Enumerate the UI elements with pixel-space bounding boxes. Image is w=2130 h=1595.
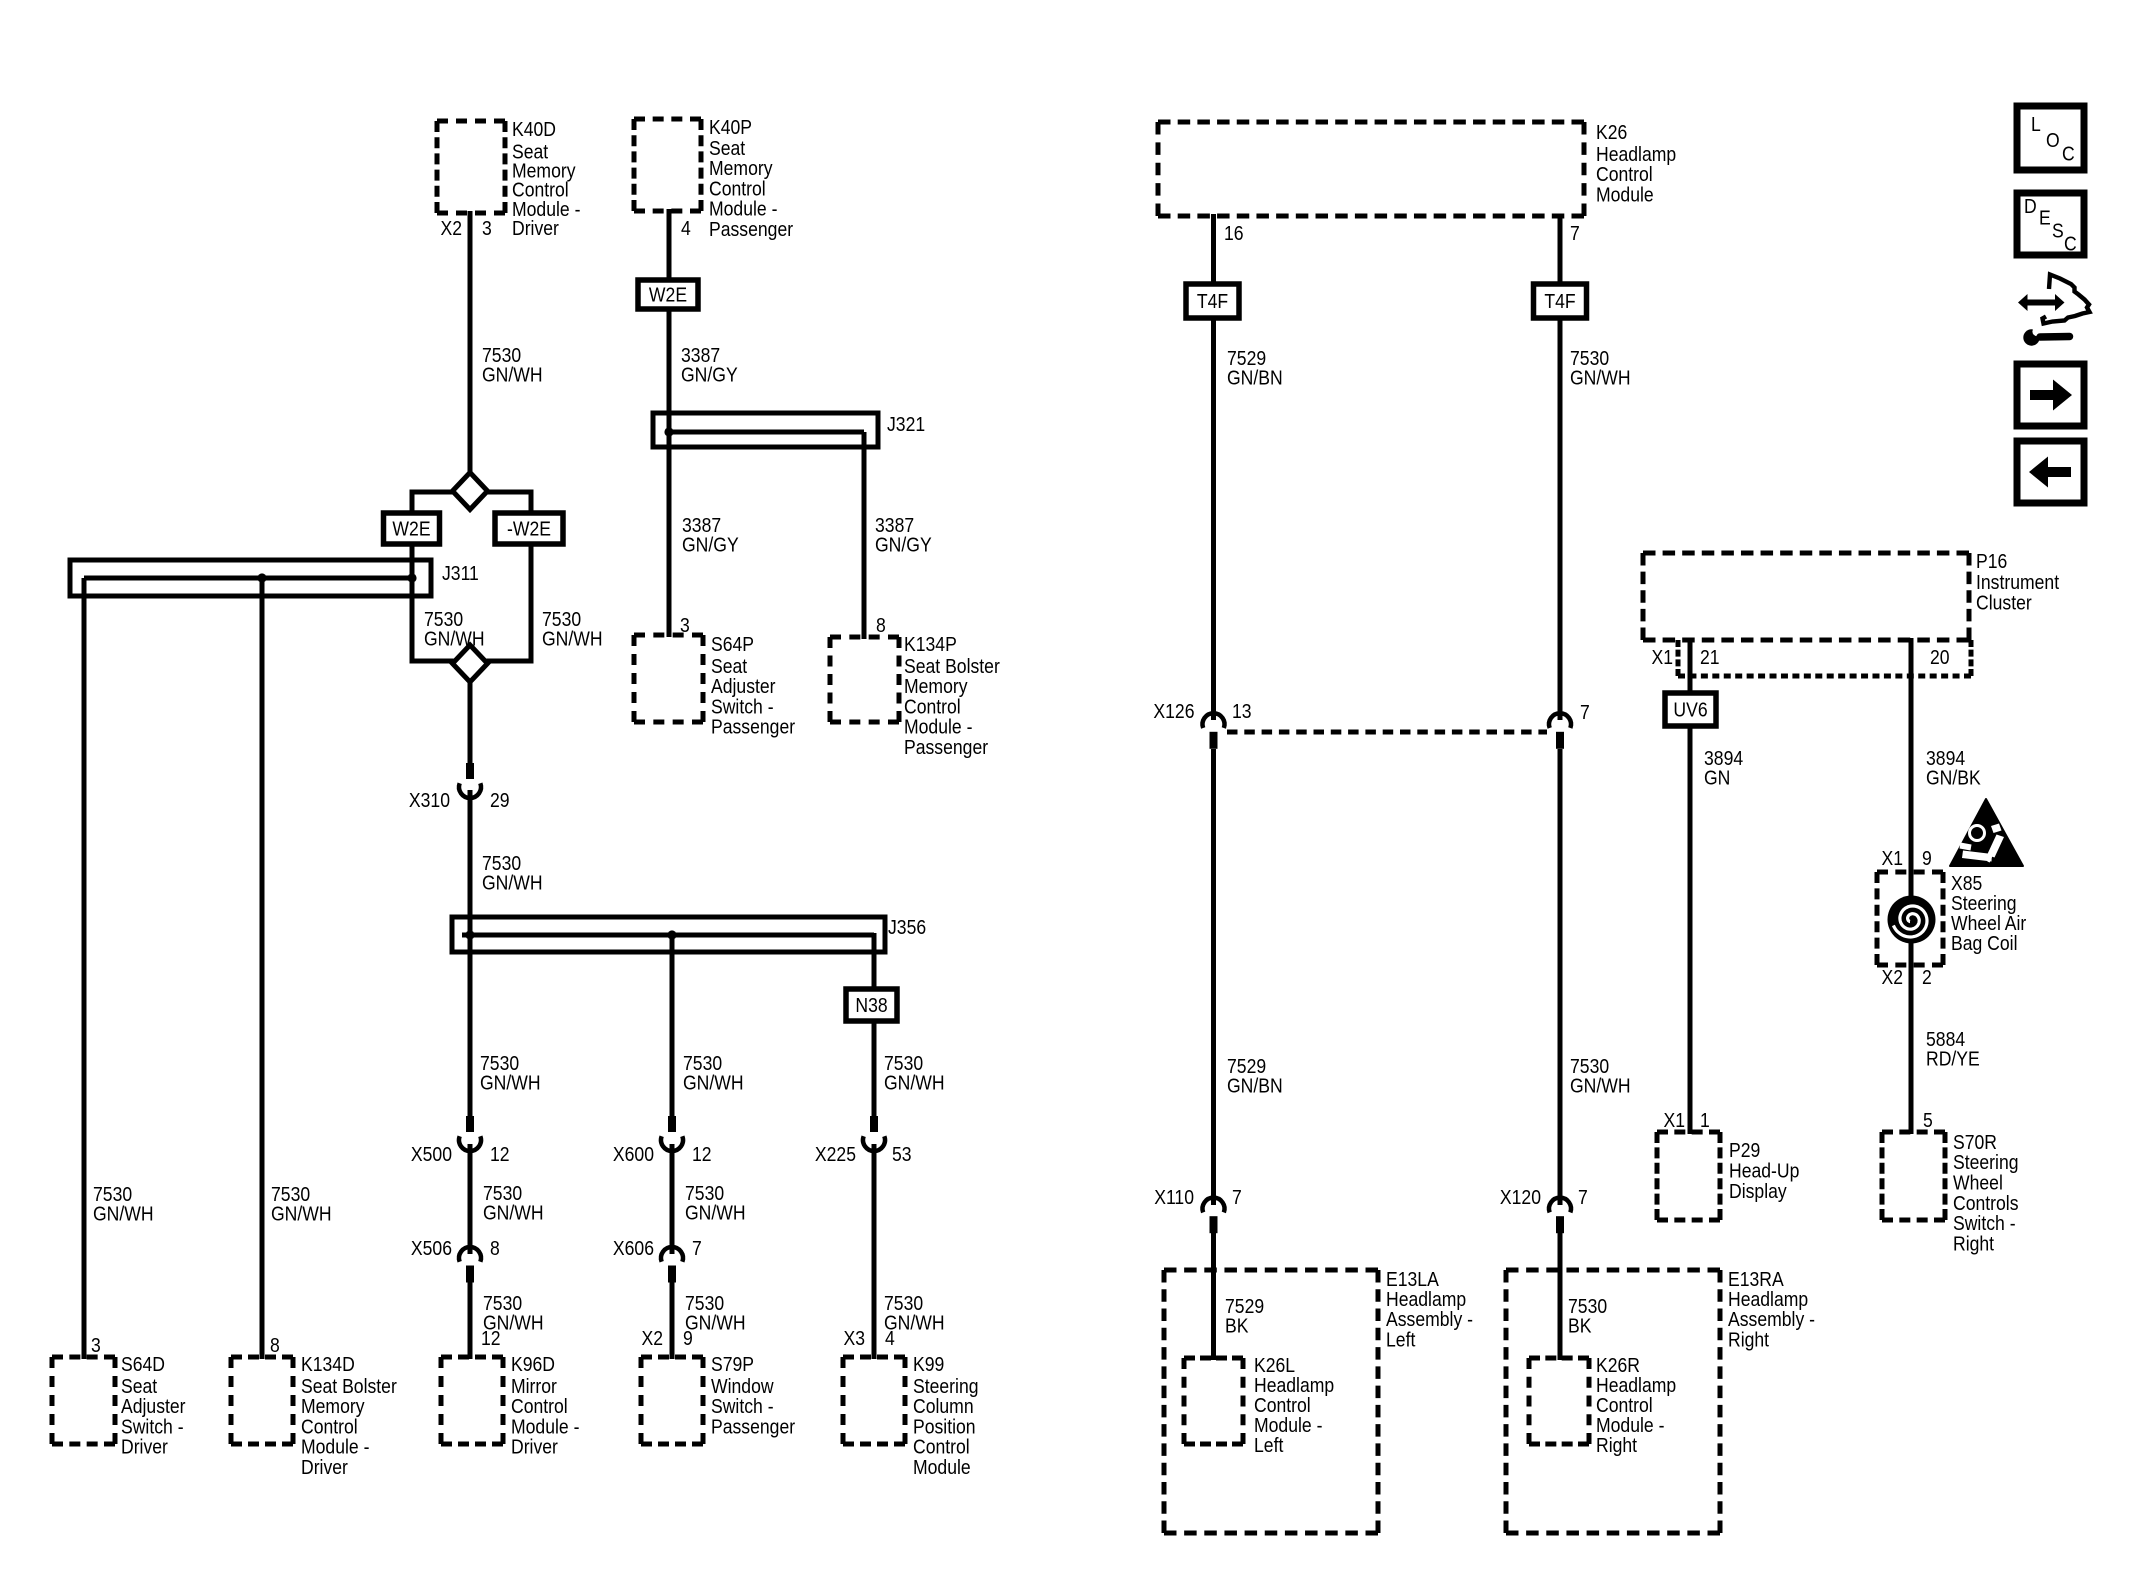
svg-text:20: 20: [1930, 646, 1950, 668]
svg-text:Driver: Driver: [512, 217, 559, 239]
svg-text:RD/YE: RD/YE: [1926, 1047, 1980, 1069]
svg-text:Control: Control: [709, 177, 766, 199]
svg-text:K40P: K40P: [709, 116, 752, 138]
svg-text:Control: Control: [904, 695, 961, 717]
svg-text:Cluster: Cluster: [1976, 591, 2032, 613]
svg-text:GN/WH: GN/WH: [482, 363, 543, 385]
svg-text:GN/GY: GN/GY: [875, 533, 932, 555]
svg-text:GN/WH: GN/WH: [1570, 1074, 1631, 1096]
svg-text:Head-Up: Head-Up: [1729, 1159, 1799, 1181]
svg-text:X110: X110: [1154, 1186, 1194, 1208]
svg-text:X225: X225: [815, 1143, 856, 1165]
svg-text:Driver: Driver: [301, 1456, 348, 1478]
svg-text:Adjuster: Adjuster: [121, 1395, 186, 1417]
svg-text:4: 4: [885, 1327, 895, 1349]
svg-text:29: 29: [490, 789, 510, 811]
svg-text:Headlamp: Headlamp: [1596, 1374, 1676, 1396]
svg-text:X500: X500: [411, 1143, 452, 1165]
svg-text:GN/WH: GN/WH: [884, 1071, 945, 1093]
svg-text:Control: Control: [511, 1395, 568, 1417]
svg-text:Module -: Module -: [511, 1415, 579, 1437]
svg-text:K134D: K134D: [301, 1353, 355, 1375]
svg-text:Driver: Driver: [121, 1436, 168, 1458]
svg-text:Memory: Memory: [301, 1395, 365, 1417]
svg-text:BK: BK: [1568, 1314, 1592, 1336]
svg-text:S64P: S64P: [711, 633, 754, 655]
svg-text:X3: X3: [843, 1327, 865, 1349]
svg-text:GN/WH: GN/WH: [1570, 366, 1631, 388]
svg-text:X606: X606: [613, 1237, 654, 1259]
svg-text:Steering: Steering: [913, 1375, 979, 1397]
svg-text:Column: Column: [913, 1395, 974, 1417]
svg-text:53: 53: [892, 1143, 912, 1165]
svg-text:C: C: [2064, 232, 2077, 254]
svg-text:X1: X1: [1663, 1109, 1685, 1131]
svg-text:12: 12: [692, 1143, 712, 1165]
svg-text:UV6: UV6: [1673, 698, 1707, 720]
svg-text:Display: Display: [1729, 1180, 1787, 1202]
svg-text:Controls: Controls: [1953, 1192, 2019, 1214]
svg-text:16: 16: [1224, 222, 1244, 244]
svg-text:J321: J321: [887, 413, 925, 435]
svg-text:12: 12: [481, 1327, 501, 1349]
svg-text:3: 3: [482, 217, 492, 239]
svg-text:K26: K26: [1596, 121, 1627, 143]
svg-text:W2E: W2E: [392, 517, 430, 539]
svg-text:GN/BN: GN/BN: [1227, 366, 1283, 388]
svg-text:12: 12: [490, 1143, 510, 1165]
svg-text:Module -: Module -: [301, 1436, 369, 1458]
svg-text:J311: J311: [442, 562, 479, 584]
svg-text:P16: P16: [1976, 550, 2007, 572]
svg-text:BK: BK: [1225, 1314, 1249, 1336]
svg-text:X310: X310: [409, 789, 450, 811]
svg-text:Position: Position: [913, 1415, 976, 1437]
svg-text:X2: X2: [641, 1327, 663, 1349]
svg-text:Left: Left: [1386, 1328, 1416, 1350]
svg-text:Memory: Memory: [709, 157, 773, 179]
svg-text:Passenger: Passenger: [709, 218, 793, 240]
svg-text:E: E: [2039, 206, 2051, 228]
svg-text:Module: Module: [913, 1456, 971, 1478]
svg-text:T4F: T4F: [1197, 290, 1228, 312]
svg-text:8: 8: [876, 614, 886, 636]
svg-text:Steering: Steering: [1951, 892, 2017, 914]
svg-text:8: 8: [270, 1334, 280, 1356]
svg-text:Seat: Seat: [711, 655, 748, 677]
svg-text:7: 7: [1580, 701, 1590, 723]
svg-text:1: 1: [1700, 1109, 1710, 1131]
svg-text:GN/WH: GN/WH: [424, 627, 485, 649]
svg-text:Switch -: Switch -: [1953, 1212, 2016, 1234]
svg-text:Module -: Module -: [709, 198, 777, 220]
svg-text:8: 8: [490, 1237, 500, 1259]
svg-text:4: 4: [681, 217, 691, 239]
svg-text:Assembly -: Assembly -: [1728, 1308, 1815, 1330]
svg-text:Memory: Memory: [904, 675, 968, 697]
svg-text:T4F: T4F: [1544, 290, 1575, 312]
svg-text:GN/WH: GN/WH: [685, 1201, 746, 1223]
svg-text:S: S: [2052, 219, 2064, 241]
svg-text:3: 3: [91, 1334, 101, 1356]
svg-text:GN/WH: GN/WH: [483, 1201, 544, 1223]
svg-text:GN/WH: GN/WH: [683, 1071, 744, 1093]
svg-text:Mirror: Mirror: [511, 1375, 557, 1397]
svg-text:K134P: K134P: [904, 633, 957, 655]
svg-text:Instrument: Instrument: [1976, 571, 2060, 593]
svg-text:7: 7: [1570, 222, 1580, 244]
svg-text:Headlamp: Headlamp: [1254, 1374, 1334, 1396]
svg-text:Control: Control: [1254, 1394, 1311, 1416]
svg-text:Module -: Module -: [1254, 1414, 1322, 1436]
svg-text:Seat: Seat: [709, 137, 746, 159]
svg-text:S64D: S64D: [121, 1353, 165, 1375]
svg-text:Control: Control: [301, 1415, 358, 1437]
svg-text:X1: X1: [1881, 847, 1903, 869]
svg-text:Control: Control: [1596, 1394, 1653, 1416]
svg-text:L: L: [2031, 113, 2041, 135]
svg-text:Right: Right: [1728, 1328, 1770, 1350]
svg-text:X600: X600: [613, 1143, 654, 1165]
svg-text:O: O: [2046, 129, 2060, 151]
svg-text:GN/GY: GN/GY: [681, 363, 738, 385]
svg-text:N38: N38: [855, 994, 887, 1016]
svg-text:5: 5: [1923, 1109, 1933, 1131]
svg-text:Control: Control: [913, 1436, 970, 1458]
svg-text:Driver: Driver: [511, 1436, 558, 1458]
svg-text:Steering: Steering: [1953, 1151, 2019, 1173]
svg-text:9: 9: [1922, 847, 1932, 869]
svg-text:Seat Bolster: Seat Bolster: [904, 655, 1000, 677]
svg-text:Headlamp: Headlamp: [1596, 143, 1676, 165]
svg-text:GN/WH: GN/WH: [480, 1071, 541, 1093]
svg-text:Seat Bolster: Seat Bolster: [301, 1375, 397, 1397]
svg-text:E13RA: E13RA: [1728, 1268, 1784, 1290]
svg-text:GN/BK: GN/BK: [1926, 766, 1981, 788]
svg-text:S70R: S70R: [1953, 1131, 1997, 1153]
svg-text:7: 7: [1578, 1186, 1588, 1208]
svg-text:K96D: K96D: [511, 1353, 555, 1375]
svg-text:Passenger: Passenger: [711, 716, 795, 738]
svg-text:Headlamp: Headlamp: [1386, 1288, 1466, 1310]
svg-text:P29: P29: [1729, 1139, 1760, 1161]
svg-text:X85: X85: [1951, 872, 1982, 894]
svg-text:C: C: [2062, 142, 2075, 164]
svg-text:E13LA: E13LA: [1386, 1268, 1439, 1290]
svg-text:GN/WH: GN/WH: [93, 1202, 154, 1224]
svg-text:X126: X126: [1153, 700, 1194, 722]
svg-text:GN/GY: GN/GY: [682, 533, 739, 555]
svg-text:Switch -: Switch -: [711, 695, 774, 717]
svg-text:J356: J356: [888, 916, 926, 938]
svg-text:2: 2: [1922, 966, 1932, 988]
svg-text:Right: Right: [1953, 1233, 1995, 1255]
svg-text:13: 13: [1232, 700, 1252, 722]
svg-text:Window: Window: [711, 1375, 774, 1397]
svg-text:X2: X2: [1881, 966, 1903, 988]
svg-text:K99: K99: [913, 1353, 944, 1375]
svg-text:K26L: K26L: [1254, 1354, 1295, 1376]
svg-text:GN/WH: GN/WH: [482, 871, 543, 893]
svg-text:X506: X506: [411, 1237, 452, 1259]
svg-text:Passenger: Passenger: [904, 736, 988, 758]
svg-text:GN: GN: [1704, 766, 1730, 788]
svg-text:Wheel: Wheel: [1953, 1171, 2003, 1193]
svg-text:X2: X2: [440, 217, 462, 239]
svg-text:Module -: Module -: [1596, 1414, 1664, 1436]
svg-text:D: D: [2024, 195, 2037, 217]
svg-text:K40D: K40D: [512, 118, 556, 140]
svg-text:X1: X1: [1651, 646, 1673, 668]
svg-text:K26R: K26R: [1596, 1354, 1640, 1376]
svg-text:Seat: Seat: [121, 1375, 158, 1397]
svg-text:W2E: W2E: [649, 283, 687, 305]
svg-text:Bag Coil: Bag Coil: [1951, 932, 2017, 954]
svg-text:Wheel Air: Wheel Air: [1951, 912, 2026, 934]
svg-text:Headlamp: Headlamp: [1728, 1288, 1808, 1310]
svg-text:S79P: S79P: [711, 1353, 754, 1375]
svg-text:3: 3: [680, 614, 690, 636]
svg-text:Assembly -: Assembly -: [1386, 1308, 1473, 1330]
svg-text:7: 7: [692, 1237, 702, 1259]
svg-text:21: 21: [1700, 646, 1720, 668]
svg-text:GN/WH: GN/WH: [271, 1202, 332, 1224]
svg-text:Left: Left: [1254, 1434, 1284, 1456]
svg-text:GN/BN: GN/BN: [1227, 1074, 1283, 1096]
svg-text:Adjuster: Adjuster: [711, 675, 776, 697]
svg-text:Control: Control: [1596, 163, 1653, 185]
svg-text:Switch -: Switch -: [711, 1395, 774, 1417]
svg-text:9: 9: [683, 1327, 693, 1349]
svg-text:Passenger: Passenger: [711, 1415, 795, 1437]
svg-text:GN/WH: GN/WH: [542, 627, 603, 649]
svg-text:Right: Right: [1596, 1434, 1638, 1456]
svg-text:Module: Module: [1596, 183, 1654, 205]
svg-text:GN/WH: GN/WH: [685, 1311, 746, 1333]
svg-text:7: 7: [1232, 1186, 1242, 1208]
svg-text:Switch -: Switch -: [121, 1415, 184, 1437]
svg-text:X120: X120: [1500, 1186, 1541, 1208]
svg-text:-W2E: -W2E: [507, 517, 551, 539]
svg-text:Module -: Module -: [904, 716, 972, 738]
